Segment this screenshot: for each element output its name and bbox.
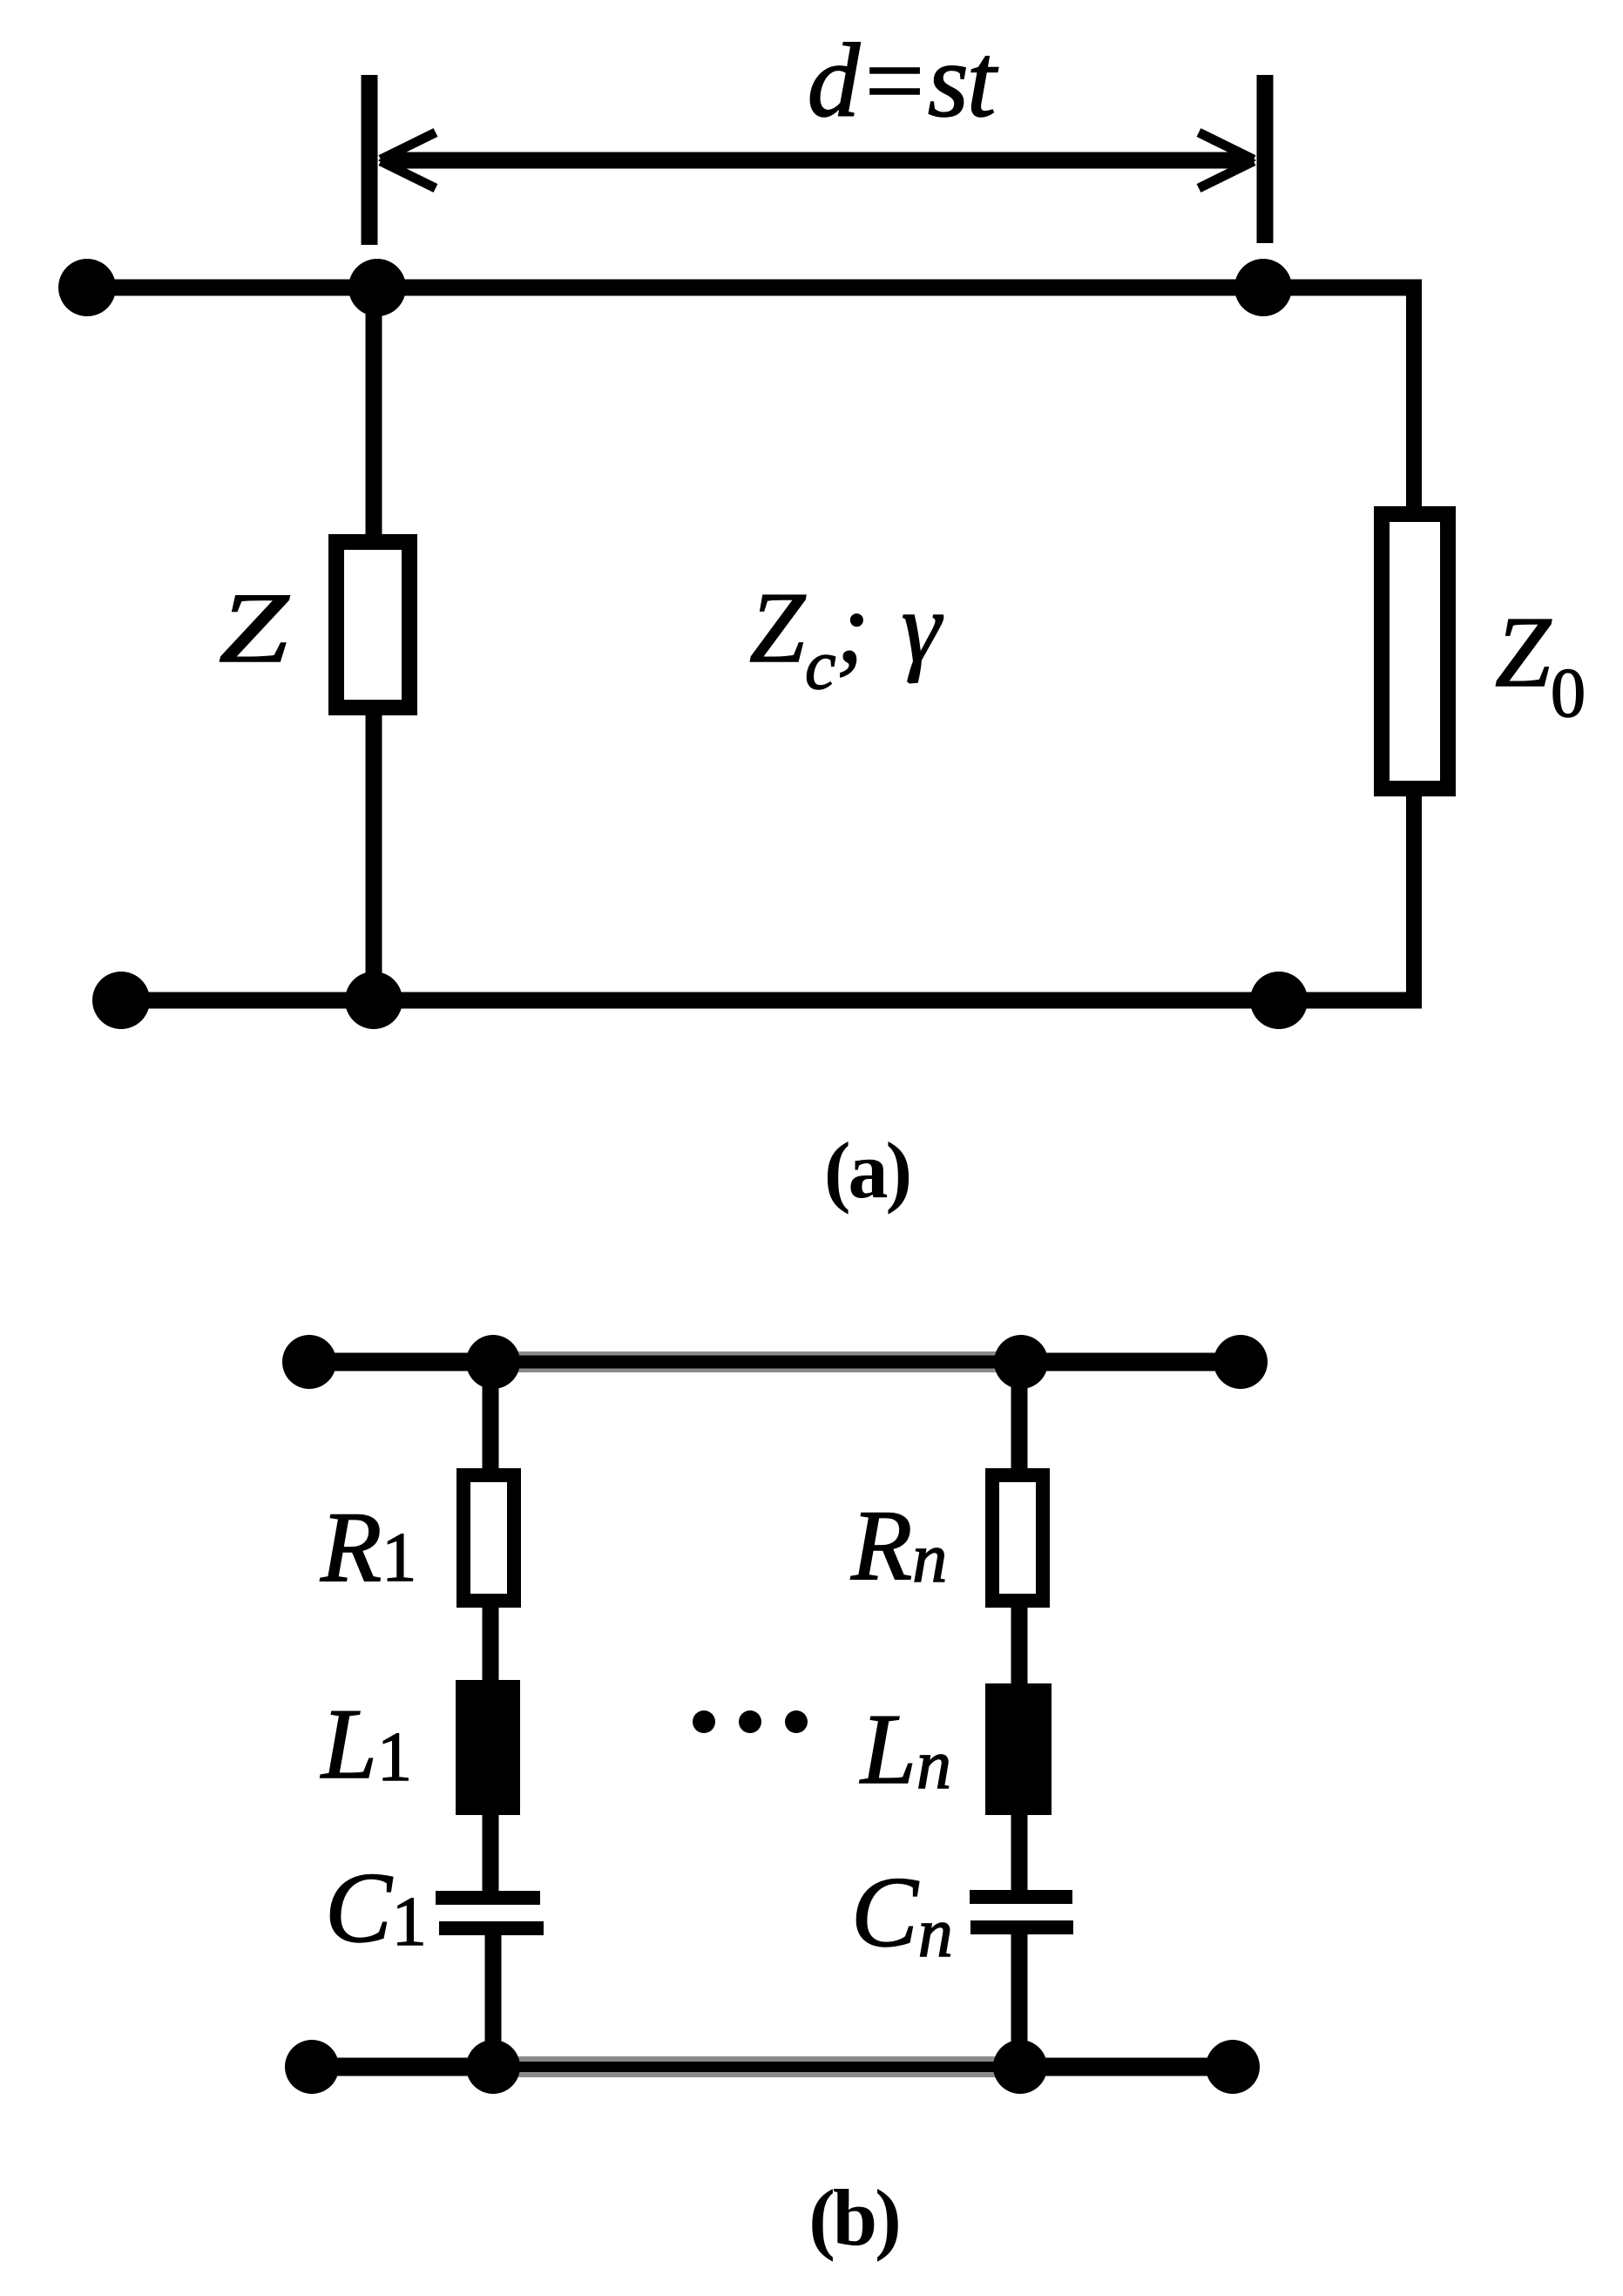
wire: top rail (b) left segment — [309, 1353, 493, 1372]
node dot bottom-right — [1250, 972, 1308, 1029]
wire: bottom rail (b) thin middle segment — [493, 2056, 1020, 2077]
wire: bottom rail (b) left segment — [312, 2058, 493, 2076]
resistor R1 — [463, 1475, 514, 1601]
wire: branch n top — [1011, 1362, 1028, 1475]
wire: top rail (b) right segment — [1021, 1353, 1241, 1372]
wire: branch1 bottom — [485, 1934, 502, 2067]
wire: bottom rail (a) — [121, 992, 1422, 1009]
terminal dot bottom-left — [92, 972, 150, 1029]
node dot (b) bottom branch1 — [466, 2040, 520, 2094]
node dot top-right — [1234, 259, 1292, 316]
wire: bottom rail (b) right segment — [1020, 2058, 1233, 2076]
ellipsis dots — [693, 1710, 715, 1733]
node dot (b) top branch n — [994, 1335, 1048, 1389]
wire: top rail (a) — [87, 280, 1422, 296]
node dot bottom of Z branch — [345, 972, 402, 1029]
dimension tick left — [362, 75, 378, 245]
svg-text:(b): (b) — [808, 2173, 898, 2262]
wire: branch1 R-L — [483, 1601, 499, 1680]
wire: right corner vertical — [1406, 280, 1422, 514]
wire: branch n R-L — [1011, 1601, 1028, 1683]
svg-text:Z: Z — [219, 572, 289, 683]
node dot (b) bottom branch n — [993, 2040, 1047, 2094]
capacitor C1 top plate — [436, 1891, 540, 1905]
wire: branch n bottom — [1011, 1934, 1028, 2067]
inductor L1 (solid bar) — [456, 1680, 520, 1815]
dimension arrow shaft d=st — [394, 152, 1244, 169]
svg-text:d=st: d=st — [808, 23, 999, 139]
terminal dot (b) bottom-left — [285, 2040, 339, 2094]
terminal dot (b) bottom-right — [1206, 2040, 1260, 2094]
terminal dot (b) top-left — [282, 1335, 336, 1389]
wire: top rail (b) thin middle segment — [493, 1351, 1021, 1372]
svg-text:(a): (a) — [824, 1126, 910, 1215]
node dot (b) top branch1 — [466, 1335, 520, 1389]
node dot top of Z branch — [348, 259, 406, 316]
wire: branch n L-C — [1011, 1815, 1028, 1891]
arrowhead right — [1199, 132, 1254, 159]
capacitor Cn bottom plate — [970, 1920, 1073, 1934]
wire: Z branch upper — [366, 288, 382, 540]
inductor Ln (solid bar) — [985, 1683, 1052, 1815]
resistor Rn — [992, 1475, 1043, 1601]
terminal dot top-left — [58, 259, 116, 316]
arrowhead left — [381, 132, 436, 159]
dimension tick right — [1257, 75, 1274, 243]
wire: Z branch lower — [366, 709, 382, 1000]
terminal dot (b) top-right — [1214, 1335, 1268, 1389]
capacitor C1 bottom plate — [439, 1921, 544, 1935]
impedance Z (rectangle) — [336, 542, 409, 708]
wire: branch1 L-C — [483, 1815, 499, 1891]
wire: branch1 top — [483, 1362, 499, 1475]
capacitor Cn top plate — [970, 1890, 1072, 1904]
wire: Z0 lower — [1406, 787, 1422, 1008]
impedance Z0 (rectangle) — [1382, 514, 1448, 789]
